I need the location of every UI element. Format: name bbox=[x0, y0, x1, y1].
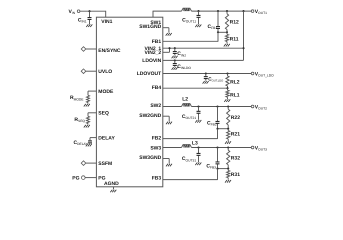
junction R12 top bbox=[226, 10, 228, 12]
resistor R12 bbox=[225, 11, 239, 32]
node VOUT1 terminal bbox=[251, 9, 267, 15]
junction VIN2 feed bbox=[242, 47, 244, 49]
pin label EN/SYNC bbox=[98, 48, 121, 54]
ground SW3GND bbox=[166, 164, 172, 167]
ground COUT11 bbox=[195, 25, 201, 28]
junction FB3 jog right bbox=[227, 168, 229, 170]
pin label SW3GND bbox=[139, 155, 161, 161]
inductor L2 bbox=[182, 104, 192, 107]
pin label LDOVOUT bbox=[137, 71, 161, 77]
pin label DELAY bbox=[98, 135, 115, 141]
wire VIN2_2 bbox=[163, 48, 170, 52]
svg-text:L2: L2 bbox=[182, 97, 188, 103]
junction COUT21 bbox=[197, 105, 199, 107]
wire SW1GND bbox=[163, 28, 169, 33]
junction CFB3 top bbox=[216, 146, 218, 148]
pin label SEQ bbox=[98, 111, 109, 117]
svg-text:RL1: RL1 bbox=[230, 92, 240, 98]
capacitor CIN1 bbox=[78, 11, 92, 24]
junction R32 top bbox=[227, 146, 229, 148]
wire VOUT2 rail bbox=[192, 106, 252, 108]
wire SW2 bbox=[163, 106, 182, 108]
svg-text:MODE: MODE bbox=[98, 89, 114, 95]
junction CINLDO bbox=[174, 59, 176, 61]
node VOUT_LDO terminal bbox=[251, 71, 274, 77]
svg-text:FB1: FB1 bbox=[152, 39, 162, 45]
svg-text:LDOVOUT: LDOVOUT bbox=[137, 71, 161, 77]
svg-text:SSFM: SSFM bbox=[98, 161, 112, 167]
junction FB2 jog right bbox=[227, 128, 229, 130]
svg-text:L3: L3 bbox=[192, 140, 198, 146]
pin label SW3 bbox=[150, 145, 161, 151]
wire SSFM bbox=[86, 162, 97, 164]
resistor RL1 bbox=[226, 88, 240, 99]
svg-text:R12: R12 bbox=[230, 19, 239, 25]
wire FB1 jog bbox=[218, 31, 227, 33]
wire VOUT1 rail bbox=[192, 10, 252, 12]
svg-text:R11: R11 bbox=[230, 36, 239, 42]
ground CIN1 bbox=[86, 21, 92, 27]
svg-text:VIN1: VIN1 bbox=[101, 19, 112, 25]
junction FB4 bbox=[226, 87, 228, 89]
pin label SSFM bbox=[98, 161, 112, 167]
pin label FB3 bbox=[152, 175, 162, 181]
inductor L3 bbox=[182, 145, 192, 148]
junction VIN2 tie bbox=[168, 47, 170, 49]
junction CFB2 top bbox=[216, 105, 218, 107]
wire FB1 bbox=[163, 32, 218, 41]
node EN/SYNC terminal bbox=[81, 47, 86, 52]
junction CFB1 top bbox=[217, 10, 219, 12]
svg-text:SW2: SW2 bbox=[150, 103, 161, 109]
svg-text:DELAY: DELAY bbox=[98, 135, 115, 141]
pin label AGND bbox=[104, 181, 119, 187]
wire DELAY bbox=[90, 137, 97, 139]
node SSFM terminal bbox=[81, 161, 86, 166]
ground R31 bbox=[225, 180, 231, 183]
capacitor CDELAY bbox=[73, 138, 92, 147]
pin label SW1GND bbox=[139, 24, 161, 30]
capacitor CFB2 bbox=[207, 107, 219, 129]
svg-text:VIN2_2: VIN2_2 bbox=[145, 50, 162, 56]
resistor RSEQ bbox=[74, 116, 89, 123]
svg-text:R22: R22 bbox=[231, 115, 240, 121]
ground CINLDO bbox=[172, 67, 178, 70]
capacitor CINLDO bbox=[173, 60, 192, 70]
inductor L1 bbox=[182, 8, 192, 11]
node UVLO terminal bbox=[81, 69, 86, 74]
resistor R32 bbox=[227, 148, 241, 169]
capacitor CIN2 bbox=[173, 48, 186, 57]
pin label FB4 bbox=[152, 85, 162, 91]
pin label UVLO bbox=[98, 69, 112, 75]
svg-text:SW3: SW3 bbox=[150, 145, 161, 151]
pin label FB1 bbox=[152, 39, 162, 45]
capacitor COUT21 bbox=[182, 107, 201, 121]
ground COUT31 bbox=[195, 163, 201, 166]
svg-text:PG: PG bbox=[72, 175, 79, 181]
wire FB2 jog bbox=[218, 128, 229, 130]
capacitor COUT11 bbox=[182, 11, 200, 24]
junction RL2 top bbox=[226, 72, 228, 74]
junction COUT11 bbox=[197, 10, 199, 12]
svg-text:SW3GND: SW3GND bbox=[139, 155, 161, 161]
junction FB1 jog right bbox=[226, 31, 228, 33]
wire LDOVOUT bbox=[163, 73, 252, 75]
capacitor CFB3 bbox=[206, 148, 219, 170]
label L2 bbox=[182, 97, 188, 103]
pin label SW2GND bbox=[139, 113, 161, 119]
wire RMODE bottom bbox=[87, 103, 89, 104]
wire PG bbox=[85, 177, 96, 179]
junction COUT31 bbox=[197, 146, 199, 148]
pin label VIN2_1 bbox=[145, 46, 162, 52]
ground RSEQ bbox=[84, 125, 90, 128]
ground SW2GND bbox=[166, 122, 172, 125]
node VOUT2 terminal bbox=[251, 104, 267, 110]
node VIN terminal bbox=[69, 9, 80, 15]
ground CDELAY bbox=[86, 144, 92, 147]
svg-text:SW2GND: SW2GND bbox=[139, 113, 161, 119]
ground RL1 bbox=[224, 99, 230, 102]
pin label SW2 bbox=[150, 103, 161, 109]
junction COUTLDO bbox=[205, 72, 207, 74]
wire UVLO bbox=[86, 70, 97, 72]
wire AGND stub bbox=[113, 187, 115, 190]
resistor RL2 bbox=[226, 74, 240, 89]
svg-text:RL2: RL2 bbox=[230, 79, 240, 85]
ground COUTLDO bbox=[203, 81, 209, 84]
pin label VIN1 bbox=[101, 19, 112, 25]
op-amp U1 main IC body bbox=[96, 17, 162, 187]
svg-text:R32: R32 bbox=[231, 156, 240, 162]
wire FB3 bbox=[163, 169, 218, 180]
ground AGND bbox=[110, 190, 116, 193]
ground RMODE bbox=[84, 104, 90, 107]
resistor R31 bbox=[227, 169, 241, 180]
resistor R22 bbox=[227, 107, 241, 129]
wire SW3GND bbox=[163, 159, 169, 164]
svg-text:FB4: FB4 bbox=[152, 85, 162, 91]
svg-text:SEQ: SEQ bbox=[98, 111, 109, 117]
resistor RMODE bbox=[70, 95, 90, 102]
junction R22 top bbox=[227, 105, 229, 107]
svg-text:R21: R21 bbox=[231, 132, 240, 138]
wire EN/SYNC bbox=[86, 48, 97, 50]
svg-text:EN/SYNC: EN/SYNC bbox=[98, 48, 121, 54]
wire VOUT1 to LDOVIN bbox=[163, 11, 244, 60]
pin label PG bbox=[98, 175, 105, 181]
junction FB3 jog left bbox=[216, 168, 218, 170]
ground CIN2 bbox=[172, 56, 178, 59]
ground COUT21 bbox=[195, 120, 201, 123]
label L3 bbox=[192, 140, 198, 146]
pin label SW1 bbox=[150, 20, 161, 26]
wire SW1 pin riser bbox=[153, 11, 182, 17]
svg-text:R31: R31 bbox=[231, 172, 240, 178]
wire VIN1 pin drop bbox=[105, 11, 107, 18]
capacitor COUTLDO bbox=[204, 74, 223, 83]
wire VIN rail bbox=[80, 10, 106, 12]
svg-text:FB2: FB2 bbox=[152, 135, 162, 141]
junction FB1 jog left bbox=[217, 31, 219, 33]
junction CIN2 bbox=[174, 47, 176, 49]
svg-text:SW1GND: SW1GND bbox=[139, 24, 161, 30]
pin label VIN2_2 bbox=[145, 50, 162, 56]
wire FB3 jog bbox=[218, 168, 229, 170]
resistor R11 bbox=[225, 32, 238, 43]
wire FB2 bbox=[163, 129, 218, 139]
junction FB2 jog left bbox=[216, 128, 218, 130]
wire SEQ bbox=[88, 113, 97, 117]
svg-text:LDOVIN: LDOVIN bbox=[142, 58, 161, 64]
ground R21 bbox=[225, 141, 231, 144]
node VOUT3 terminal bbox=[251, 145, 267, 151]
pin label LDOVIN bbox=[142, 58, 161, 64]
capacitor COUT31 bbox=[182, 148, 201, 163]
wire FB4 bbox=[163, 87, 228, 89]
ground SW1GND bbox=[166, 33, 172, 36]
node PG terminal bbox=[72, 175, 85, 181]
ground R11 bbox=[224, 44, 230, 47]
capacitor CFB1 bbox=[208, 11, 220, 32]
wire RSEQ bottom bbox=[87, 124, 89, 125]
svg-text:UVLO: UVLO bbox=[98, 69, 112, 75]
pin label MODE bbox=[98, 89, 114, 95]
pin label FB2 bbox=[152, 135, 162, 141]
wire VIN2_1 bbox=[163, 47, 244, 49]
wire MODE bbox=[88, 91, 97, 95]
junction LDO feed bbox=[242, 10, 244, 12]
junction VIN/CIN1 bbox=[88, 10, 90, 12]
resistor R21 bbox=[227, 129, 241, 141]
wire SW2GND bbox=[163, 116, 169, 121]
svg-text:FB3: FB3 bbox=[152, 175, 162, 181]
svg-text:AGND: AGND bbox=[104, 181, 119, 187]
wire SW3 bbox=[163, 147, 182, 149]
wire VOUT3 rail bbox=[192, 147, 252, 149]
